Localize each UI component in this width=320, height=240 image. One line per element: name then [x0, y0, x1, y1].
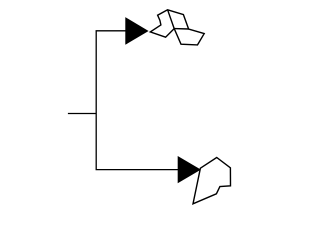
arrowhead bottom	[178, 156, 201, 183]
arrowhead top	[125, 17, 148, 45]
leaf shape top (crumpled polygon)	[150, 10, 204, 45]
wire trunk with top and bottom branches	[96, 31, 178, 170]
wire root stub	[68, 113, 96, 115]
leaf shape bottom (boot polygon)	[193, 158, 231, 204]
fold line horizontal	[174, 28, 188, 30]
fold line from peak	[168, 10, 175, 29]
